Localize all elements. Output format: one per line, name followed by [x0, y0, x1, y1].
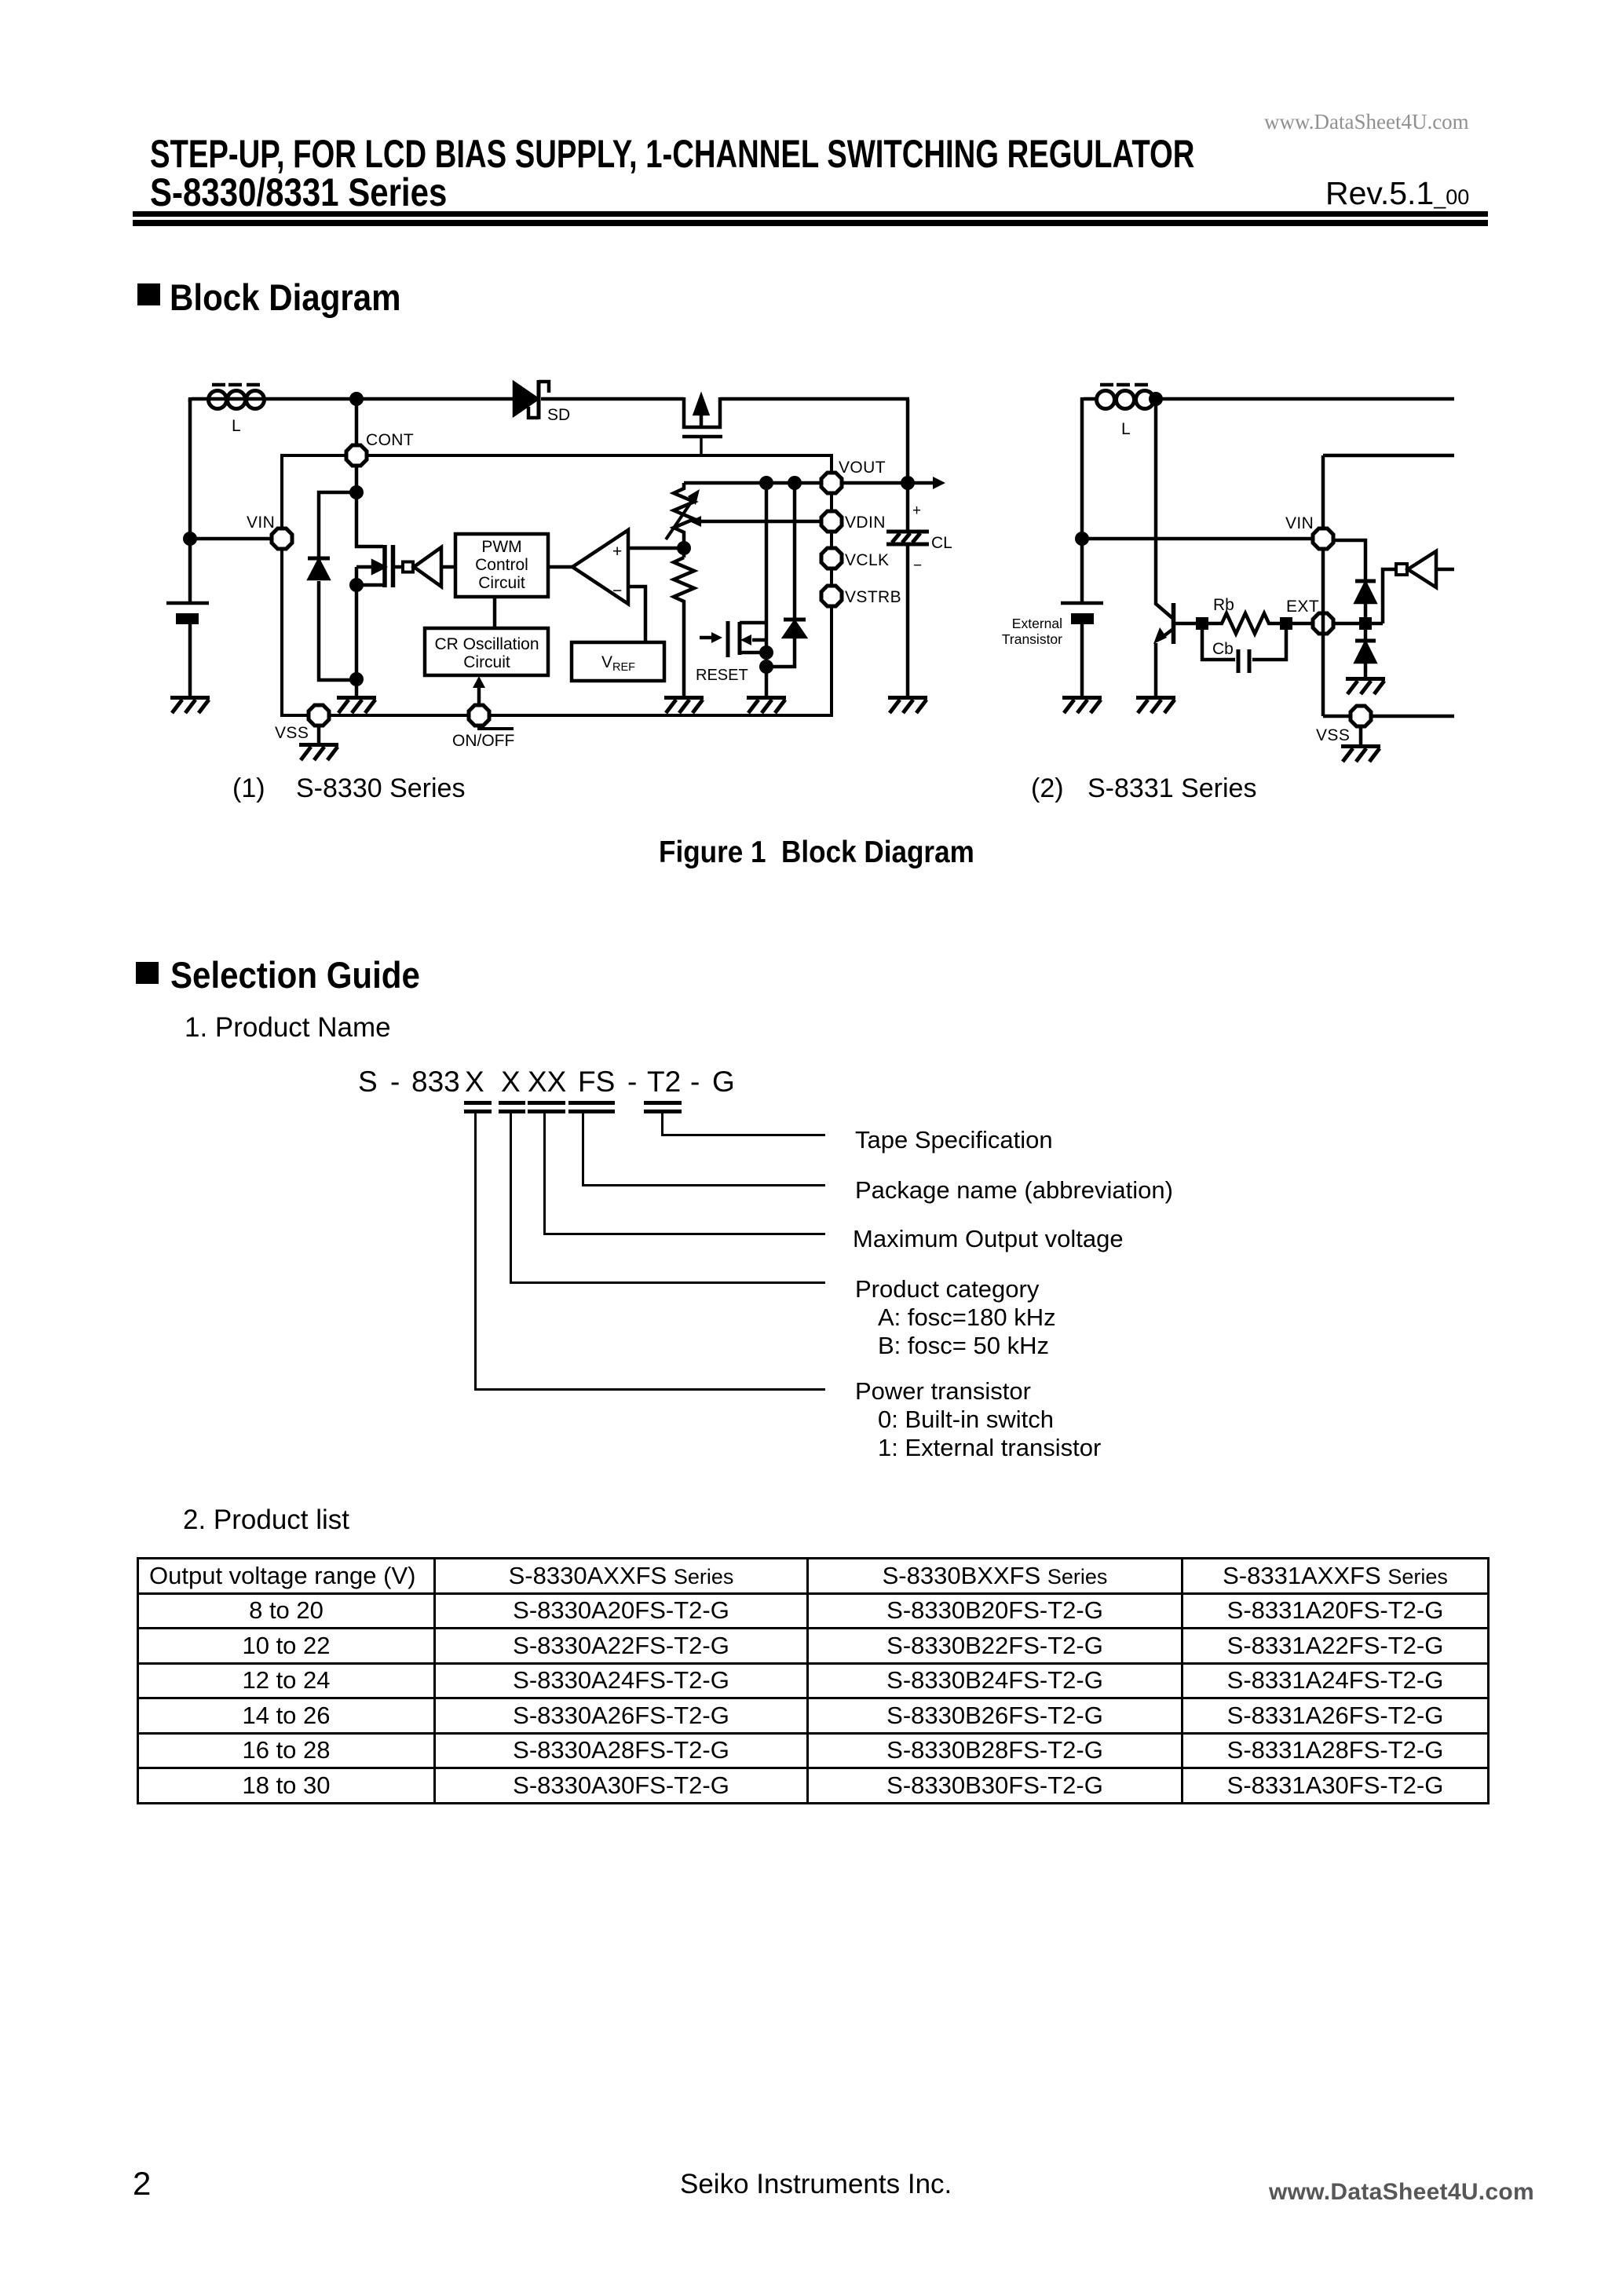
wire: VIN up to top stub	[1323, 455, 1454, 528]
wire: top rail S-8331	[1082, 397, 1454, 399]
node: L output junction	[1149, 392, 1163, 406]
svg-text:EXT: EXT	[1286, 598, 1319, 616]
label VIN (S-8331)	[1285, 514, 1314, 532]
svg-text:Cb: Cb	[1212, 640, 1234, 658]
label VIN (S-8330)	[247, 514, 275, 532]
figure caption	[659, 837, 974, 868]
underline FS	[568, 1101, 615, 1105]
product table	[137, 1557, 1490, 1804]
1. Product Name	[185, 1014, 391, 1041]
IC body S-8330	[282, 455, 832, 715]
label PWM Control Circuit	[475, 538, 528, 592]
node: M2 source junction	[759, 645, 773, 660]
label VSTRB	[845, 588, 901, 606]
diode (flyback, parallel M1)	[308, 492, 356, 680]
svg-text:Circuit: Circuit	[463, 653, 510, 671]
2. Product list	[183, 1506, 349, 1534]
node: M1 source junction	[349, 578, 364, 592]
port VCLK	[821, 548, 842, 569]
gate driver inverter U1a	[393, 547, 456, 587]
port ON/OFF	[469, 705, 489, 726]
node: VIN junction on left rail	[183, 532, 197, 546]
wire: junction down to CONT pin	[355, 399, 359, 445]
inverter U2 (EXT driver)	[1383, 551, 1454, 623]
label VCLK	[845, 551, 889, 569]
svg-text:PWM: PWM	[481, 538, 521, 556]
port CONT	[346, 445, 367, 466]
svg-text:CR Oscillation: CR Oscillation	[434, 635, 539, 653]
svg-text:External: External	[1012, 616, 1062, 631]
svg-text:RESET: RESET	[696, 667, 748, 684]
callout line X1	[474, 1113, 477, 1390]
comparator (error amp)	[548, 530, 628, 604]
svg-text:REF: REF	[612, 661, 635, 674]
resistor Rb	[1202, 613, 1313, 634]
label VOUT	[839, 459, 886, 477]
product name code	[358, 1067, 378, 1096]
resistor R1 (variable, feedback top)	[666, 483, 700, 558]
ground (VSS S-8330)	[299, 745, 338, 761]
svg-text:Rb: Rb	[1213, 596, 1234, 614]
svg-text:L: L	[1121, 420, 1131, 438]
label EXT	[1286, 598, 1319, 616]
label max output voltage	[853, 1227, 1124, 1251]
node: base/Rb junction	[1196, 617, 1208, 630]
svg-text:SD: SD	[547, 406, 570, 424]
label power transistor	[855, 1377, 1101, 1462]
Selection Guide heading	[136, 962, 159, 984]
wire: EXT line to inverter tap	[1333, 622, 1383, 626]
PWM Control Circuit block	[455, 534, 548, 597]
wire: VIN right to clamp diodes	[1333, 540, 1365, 580]
caption 2	[1031, 775, 1064, 802]
label RESET	[696, 667, 748, 684]
svg-text:VSTRB: VSTRB	[845, 588, 901, 606]
wire: ON/OFF arrow to CR oscillator	[473, 676, 485, 705]
wire: comparator + input	[628, 547, 684, 550]
wire: left rail S-8331	[1080, 399, 1084, 537]
svg-text:L: L	[232, 417, 241, 435]
label VDIN	[845, 514, 886, 532]
label VSS (S-8330)	[275, 724, 309, 742]
VREF block	[572, 642, 664, 681]
callout line XX	[543, 1113, 546, 1234]
label CL	[931, 534, 952, 552]
node: top rail / CONT junction	[349, 392, 364, 406]
svg-text:VDIN: VDIN	[845, 514, 886, 532]
node: Rb/EXT junction	[1280, 617, 1292, 630]
callout line T2	[661, 1113, 663, 1135]
footer page number	[133, 2167, 151, 2200]
label comparator +/-	[612, 543, 622, 600]
svg-text:CL: CL	[931, 534, 952, 552]
svg-text:VIN: VIN	[1285, 514, 1314, 532]
node: VOUT rail / M2 drain	[759, 476, 773, 490]
label Rb	[1213, 596, 1234, 614]
caption 1	[232, 775, 265, 802]
wire: VIN down to VSS rail	[1321, 549, 1325, 716]
node: VOUT rail / clamp diode	[788, 476, 802, 490]
label product category	[855, 1275, 1056, 1360]
battery CIN (S-8330 input)	[166, 540, 209, 696]
label External Transistor	[1002, 616, 1062, 647]
label ON/OFF with overline	[452, 727, 514, 750]
ground (battery S-8330)	[170, 698, 210, 714]
label CR Oscillation Circuit	[434, 635, 539, 671]
ground (VSS S-8331)	[1341, 747, 1380, 762]
capacitor CL	[886, 399, 929, 696]
ground (battery S-8331)	[1062, 698, 1102, 714]
Block Diagram heading	[137, 283, 160, 305]
ground (Q1 emitter)	[1136, 698, 1175, 714]
svg-text:VIN: VIN	[247, 514, 275, 532]
CR Oscillation Circuit block	[425, 597, 548, 675]
diode SD (Schottky)	[514, 380, 549, 419]
feedthrough notch with arrow and capacitor	[682, 397, 722, 454]
wire: VSS to ground	[317, 726, 321, 743]
block diagram schematic	[0, 0, 1623, 832]
wire: top rail notch to output rail	[720, 397, 909, 401]
label package name	[855, 1178, 1173, 1202]
svg-text:+: +	[612, 543, 622, 561]
ground (M2 source)	[747, 698, 786, 714]
node: M2 source / diode anode	[759, 660, 773, 674]
wire: top rail SD to notch	[541, 397, 684, 401]
ground (feedback divider)	[664, 698, 704, 714]
inductor L (S-8331)	[1097, 385, 1154, 409]
wire: VDIN tap arrow	[689, 516, 821, 527]
svg-text:−: −	[913, 558, 922, 574]
watermark top	[1264, 112, 1469, 133]
label SD	[547, 406, 570, 424]
ground (M1 source)	[337, 698, 376, 714]
wire: top rail left (VIN to SD anode)	[190, 397, 513, 402]
svg-text:Circuit: Circuit	[478, 574, 525, 592]
label tape spec	[855, 1128, 1053, 1152]
label L (S-8330 inductor)	[232, 417, 241, 435]
svg-text:VSS: VSS	[275, 724, 309, 742]
underline X1	[464, 1101, 492, 1105]
port VSS (S-8330)	[309, 705, 329, 726]
wire: VSS rail S-8331	[1323, 715, 1454, 718]
double rule	[133, 211, 1488, 217]
svg-text:+: +	[912, 503, 921, 519]
title line 1	[150, 134, 1194, 174]
ground (D2)	[1346, 679, 1385, 695]
wire: VIN rail S-8331	[1082, 537, 1313, 541]
callout line FS	[582, 1113, 584, 1186]
svg-text:ON/OFF: ON/OFF	[452, 732, 514, 750]
node: drain top junction	[349, 485, 364, 499]
svg-text:Transistor: Transistor	[1002, 631, 1062, 647]
capacitor Cb	[1202, 623, 1286, 673]
svg-text:−: −	[612, 582, 622, 600]
label VSS (S-8331)	[1316, 726, 1350, 744]
node: divider mid junction	[677, 541, 691, 555]
label CONT	[366, 431, 414, 449]
wire: M1 source to ground	[355, 585, 359, 696]
svg-text:VOUT: VOUT	[839, 459, 886, 477]
wire: VIN rail to port	[190, 537, 272, 541]
wire: comparator - input to VREF	[628, 587, 645, 642]
footer company	[680, 2170, 952, 2198]
underline T2	[644, 1101, 682, 1105]
wire: VOUT internal rail	[684, 481, 821, 485]
port VIN (S-8331)	[1313, 528, 1333, 549]
port VSS (S-8331)	[1351, 706, 1371, 726]
svg-text:V: V	[601, 653, 612, 671]
transistor M1 (power NMOS)	[356, 466, 393, 587]
label VREF	[601, 653, 635, 674]
inductor L (S-8330)	[209, 385, 265, 409]
ground (CL)	[888, 698, 927, 714]
wire: VSS stub to ground	[1359, 726, 1363, 744]
port VOUT	[821, 473, 842, 493]
label CL plus/minus	[912, 503, 922, 574]
port VDIN	[821, 511, 842, 532]
port VSTRB	[821, 586, 842, 606]
callout line X2	[510, 1113, 512, 1283]
node: VIN junction S-8331	[1075, 532, 1089, 546]
port EXT	[1313, 613, 1333, 634]
wire: left rail down from L	[188, 399, 192, 537]
label L (S-8331 inductor)	[1121, 420, 1131, 438]
svg-text:CONT: CONT	[366, 431, 414, 449]
node: source/diode junction	[349, 672, 364, 686]
svg-text:Control: Control	[475, 556, 528, 574]
node: EXT/diode junction	[1359, 617, 1372, 630]
diode D2 (EXT clamp lower)	[1355, 623, 1376, 677]
underline XX	[528, 1101, 565, 1105]
transistor Q1 (external NPN)	[1153, 399, 1197, 696]
underline X2	[499, 1101, 525, 1105]
label Cb	[1212, 640, 1234, 658]
diode D1 (EXT clamp upper)	[1355, 581, 1376, 623]
title line 2	[150, 173, 447, 212]
footer watermark	[1269, 2181, 1534, 2204]
svg-text:VCLK: VCLK	[845, 551, 889, 569]
node: VOUT / CL junction	[901, 476, 915, 490]
port VIN (S-8330)	[272, 528, 292, 549]
battery CIN (S-8331 input)	[1061, 540, 1103, 696]
transistor M2 (RESET NMOS)	[700, 483, 766, 696]
svg-text:VSS: VSS	[1316, 726, 1350, 744]
resistor R2 (feedback bottom)	[674, 558, 694, 696]
diode (VOUT clamp)	[766, 483, 806, 667]
revision	[1325, 177, 1469, 210]
wire: VOUT output with arrow	[842, 477, 945, 489]
